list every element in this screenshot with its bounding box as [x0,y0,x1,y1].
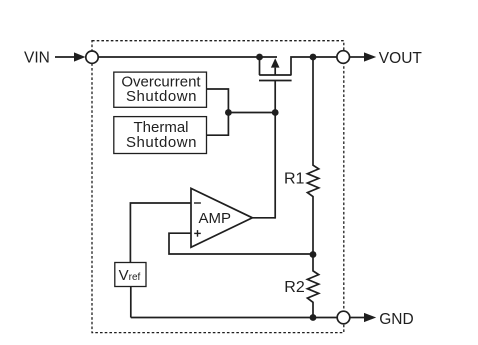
IC dashed boundary box [92,41,344,333]
arrow VOUT [364,52,376,61]
wire top rail left (VIN to pass transistor) [98,56,277,58]
block Vref [115,263,146,287]
wire VOUT lead [350,56,365,58]
transistor Q1 gate bar [259,80,292,82]
wire shutdown bus to gate line [228,112,275,114]
transistor Q1 source stub [259,57,261,75]
svg-text:R2: R2 [284,279,305,296]
pin circle GND [337,311,350,324]
transistor Q1 drain stub [291,57,337,75]
wire VIN lead [55,56,75,58]
wire thermal output [207,113,228,136]
wire AMP output to gate line [252,217,275,219]
op-amp plus sign [194,232,201,234]
svg-text:VIN: VIN [24,50,50,67]
arrow GND [364,313,376,322]
node junction dot shutdown bus [225,109,232,116]
node junction dot feedback tap [310,251,317,258]
transistor Q1 body arrow [271,58,280,67]
node junction dot top of divider [310,54,317,61]
svg-text:GND: GND [379,311,413,328]
op-amp minus sign [194,202,201,204]
wire inverting input from Vref [130,203,191,263]
transistor Q1 channel bar [259,74,291,76]
wire Vref to ground rail [130,287,132,318]
wire GND lead [350,317,364,319]
wire gate line (gate bar down to AMP output) [274,81,276,219]
wire ground rail [131,317,337,319]
node junction dot at transistor source [256,54,263,61]
pin circle VOUT [337,51,350,64]
block Thermal Shutdown [114,117,207,154]
wire overcurrent output [207,89,228,113]
op-amp U1 AMP [191,188,252,247]
block Overcurrent Shutdown [114,72,207,107]
svg-text:R1: R1 [284,171,305,188]
svg-text:VOUT: VOUT [379,50,423,67]
node junction dot bottom of divider [310,314,317,321]
arrow into VIN pin [74,52,86,61]
svg-text:Shutdown: Shutdown [126,88,197,105]
wire non-inverting input feedback [169,233,313,254]
svg-text:AMP: AMP [199,210,232,227]
pin circle VIN [86,51,98,63]
node junction dot on gate line [272,109,279,116]
svg-text:Shutdown: Shutdown [126,134,197,151]
